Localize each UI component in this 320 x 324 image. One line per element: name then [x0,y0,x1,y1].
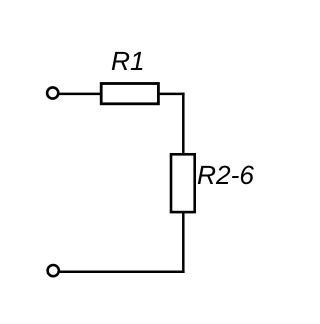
wire: R2-6 down to bottom corner [182,212,185,273]
wire: vertical down to R2-6 [182,93,185,155]
wire: R1 to top-right corner [158,93,184,96]
resistor R2-6 [171,154,195,212]
resistor R1 [101,84,158,104]
label R1 [112,52,143,70]
terminal (top-left) [47,87,58,98]
terminal (bottom-left) [48,265,59,276]
label R2-6 [198,166,254,185]
wire: bottom horizontal [59,270,184,273]
wire: top terminal to R1 [59,93,102,96]
